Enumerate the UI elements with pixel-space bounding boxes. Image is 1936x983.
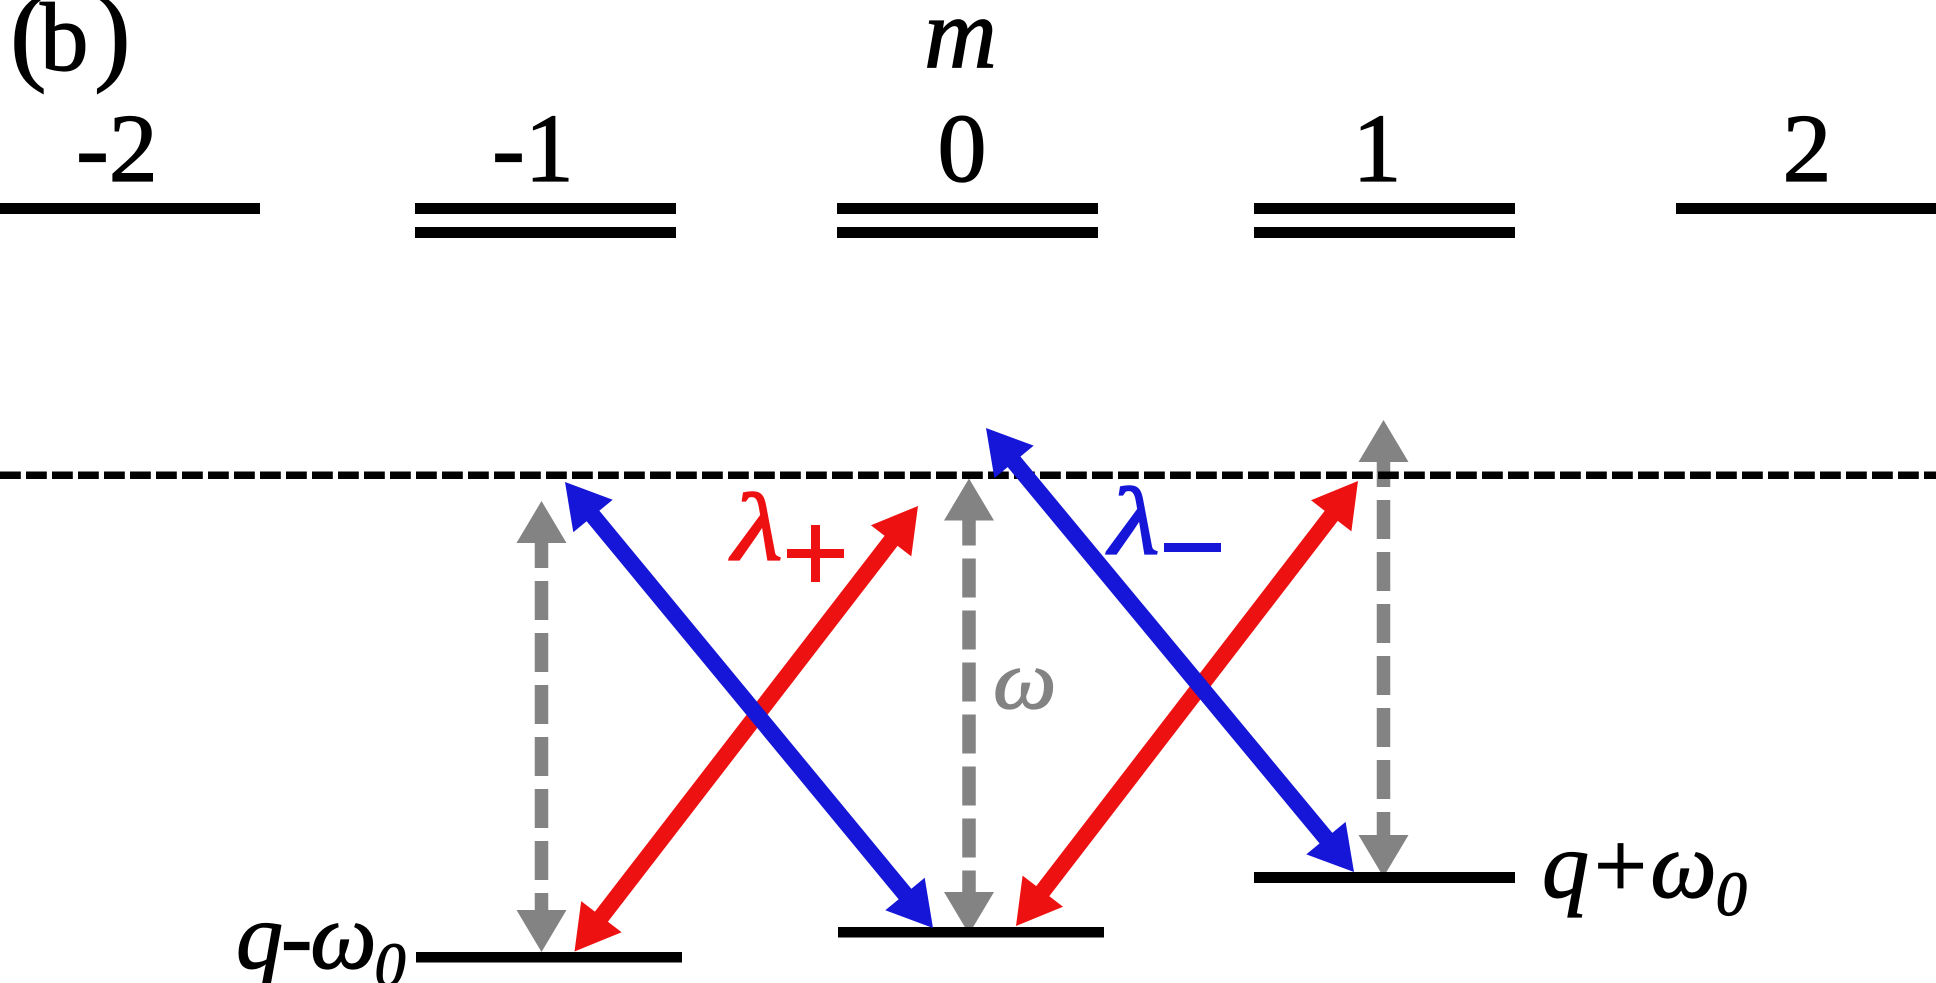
svg-text:-1: -1 — [492, 95, 574, 203]
level q+w0 line — [1254, 872, 1515, 883]
level m=0 double line — [837, 203, 1098, 238]
label omega — [993, 633, 1056, 727]
dashed resonance line — [0, 471, 1936, 479]
svg-text:0: 0 — [938, 95, 987, 203]
label (b) — [10, 0, 131, 94]
svg-text:m: m — [924, 0, 997, 89]
gray dashed arrow omega-middle — [944, 479, 994, 935]
svg-text:1: 1 — [1353, 95, 1402, 203]
gray dashed arrow omega-left — [517, 501, 567, 952]
level m=-2 line — [0, 203, 260, 214]
level m=2 line — [1676, 203, 1936, 214]
svg-text:b: b — [40, 0, 89, 91]
svg-text:q-ω0: q-ω0 — [236, 885, 406, 983]
level q line (middle) — [838, 927, 1104, 938]
gray dashed arrow omega-right — [1359, 420, 1409, 877]
svg-text:ω: ω — [993, 633, 1056, 727]
level m=-1 double line — [415, 203, 676, 238]
red arrow lambda+ right — [1016, 481, 1358, 926]
label lambda+ — [729, 476, 783, 582]
svg-text:λ: λ — [1106, 470, 1160, 576]
blue arrow lambda- right — [986, 428, 1354, 872]
label lambda- — [1106, 470, 1160, 576]
svg-text:q+ω0: q+ω0 — [1542, 814, 1747, 929]
level m=1 double line — [1254, 203, 1515, 238]
red arrow lambda+ left — [575, 506, 919, 952]
blue arrow lambda- left — [565, 482, 933, 928]
svg-text:): ) — [94, 0, 131, 94]
svg-text:2: 2 — [1783, 95, 1832, 203]
svg-text:-2: -2 — [76, 95, 158, 203]
level q-w0 line — [416, 952, 682, 963]
svg-text:λ: λ — [729, 476, 783, 582]
